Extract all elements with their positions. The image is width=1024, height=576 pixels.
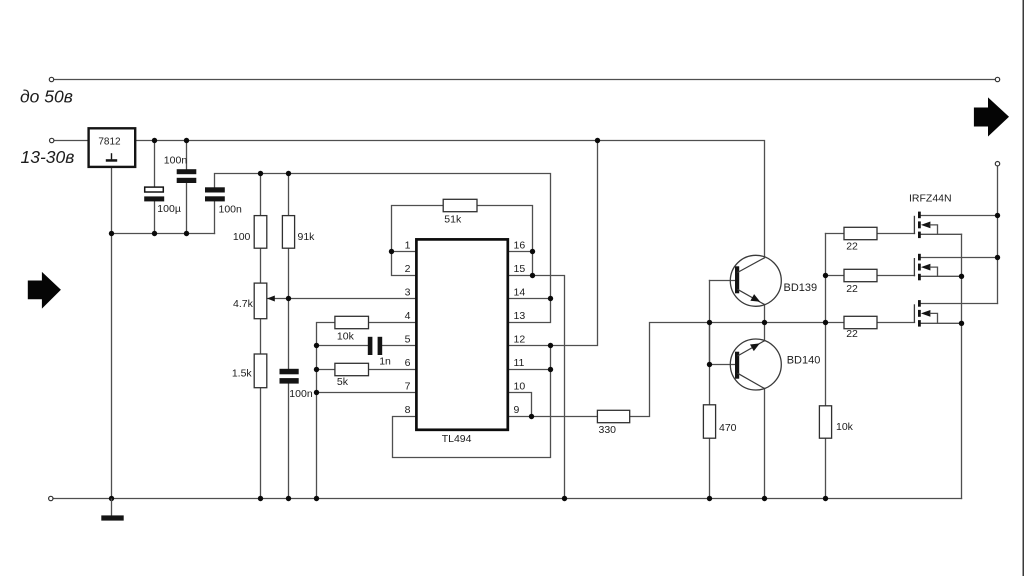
junction gate bus row3 xyxy=(823,320,828,325)
transistor M2 IRFZ44N gate bar xyxy=(913,258,915,276)
junction 100n C1 bottom xyxy=(184,231,189,236)
svg-text:22: 22 xyxy=(846,241,858,253)
terminal 13-30в xyxy=(50,138,54,142)
junction pin3 divider xyxy=(286,296,291,301)
resistor R12 22 xyxy=(844,269,877,281)
svg-text:3: 3 xyxy=(405,287,411,299)
wire 22b row to M2 gate xyxy=(826,275,915,277)
transistor Q1 base bar xyxy=(735,266,739,293)
svg-text:5: 5 xyxy=(405,334,411,346)
resistor R6 10k xyxy=(335,316,369,328)
svg-text:100n: 100n xyxy=(289,388,313,400)
junction ground rail x112 xyxy=(109,496,114,501)
transistor Q2 emitter arrow xyxy=(750,343,760,351)
ground symbol bottom rail xyxy=(111,499,113,516)
svg-text:6: 6 xyxy=(405,357,411,369)
svg-text:7812: 7812 xyxy=(98,136,121,147)
wire main ground vertical from 7812 xyxy=(111,167,113,499)
svg-text:5k: 5k xyxy=(337,376,349,388)
terminal до 50в left xyxy=(49,77,53,81)
wire pin2 stub and 51k left riser xyxy=(392,206,533,276)
wire pin9 through 330 to driver bases xyxy=(509,323,826,417)
svg-text:BD139: BD139 xyxy=(784,282,818,294)
junction 100u bottom xyxy=(152,231,157,236)
resistor R13 22 xyxy=(844,316,877,328)
wire BD140 collector to ground xyxy=(764,389,766,499)
transistor M2 channel dashes xyxy=(918,254,921,261)
junction driver bases xyxy=(707,320,712,325)
wire 100u cap top lead xyxy=(154,141,156,188)
wire pin5 to 1n left plate xyxy=(317,345,368,347)
transistor M3 channel dashes xyxy=(918,300,921,307)
junction BD140 base xyxy=(707,362,712,367)
junction pin12 riser on +12 rail xyxy=(595,138,600,143)
wire input 13-30в to 7812 xyxy=(54,140,88,142)
capacitor 1n C4 xyxy=(368,337,373,355)
resistor R2 91k xyxy=(282,216,294,249)
junction pin9 pin10 xyxy=(529,414,534,419)
svg-text:4: 4 xyxy=(405,310,411,322)
input flow arrow left xyxy=(28,272,61,309)
resistor R11 22 xyxy=(844,227,877,239)
wire RC bus vertical xyxy=(317,323,416,499)
wire 91k chain to 100n C3 top xyxy=(288,174,290,369)
transistor Q1 emitter arrow xyxy=(750,294,760,302)
junction emitters xyxy=(762,320,767,325)
wire pin3 to 4.7k wiper xyxy=(268,298,416,300)
transistor Q2 base bar xyxy=(735,352,739,379)
svg-text:BD140: BD140 xyxy=(787,354,821,366)
svg-text:1n: 1n xyxy=(379,356,391,368)
junction ground rail x565 xyxy=(562,496,567,501)
transistor M2 body arrow xyxy=(921,264,931,271)
transistor M1 IRFZ44N gate bar xyxy=(913,216,915,234)
wire local ground bus xyxy=(112,233,215,235)
wire divider chain R100/4.7k/1.5k xyxy=(260,174,262,499)
wire 100n C2 top lead to Vref rail and down to pin13 xyxy=(215,174,551,323)
wire base riser Q1 Q2 xyxy=(709,281,711,365)
wire pin6 5k row xyxy=(317,369,416,371)
junction 100u on +12 rail xyxy=(152,138,157,143)
transistor M1 channel dashes xyxy=(918,212,921,219)
svg-text:91k: 91k xyxy=(298,231,316,243)
svg-text:IRFZ44N: IRFZ44N xyxy=(909,193,952,205)
wire pin7 xyxy=(317,392,416,394)
svg-text:100n: 100n xyxy=(219,203,243,215)
junction ground rail x260 xyxy=(258,496,263,501)
ground symbol inside 7812 xyxy=(111,153,113,159)
svg-text:7: 7 xyxy=(405,381,411,393)
wire 22c row to M3 gate xyxy=(826,322,915,324)
transistor Q2 BD140 circle xyxy=(730,339,781,390)
transistor Q1 collector slant xyxy=(738,258,765,273)
svg-text:100: 100 xyxy=(233,231,251,243)
svg-text:2: 2 xyxy=(405,263,411,275)
svg-text:до 50в: до 50в xyxy=(20,87,73,107)
svg-text:10: 10 xyxy=(514,381,526,393)
svg-text:15: 15 xyxy=(514,263,526,275)
wire pin8 loop to pins 11-12 xyxy=(393,346,551,458)
svg-text:11: 11 xyxy=(514,357,525,369)
transistor Q1 BD139 circle xyxy=(730,255,781,306)
svg-text:51k: 51k xyxy=(444,214,462,226)
regulator U2 7812 xyxy=(89,128,136,167)
transistor Q2 collector slant xyxy=(738,373,765,388)
wire top rail до 50в xyxy=(54,79,996,81)
resistor R9 470 xyxy=(703,405,715,438)
wire source bus xyxy=(961,234,963,498)
wire 100n C1 bottom lead xyxy=(186,183,188,234)
wire 100u cap bottom lead xyxy=(154,202,156,234)
junction ground rail x710 xyxy=(707,496,712,501)
svg-text:12: 12 xyxy=(514,334,526,346)
svg-text:16: 16 xyxy=(514,240,526,252)
resistor R1 100 xyxy=(254,216,267,249)
junction M2 source bus xyxy=(959,274,964,279)
junction 5k branch xyxy=(314,367,319,372)
wire M1 source xyxy=(920,233,962,235)
svg-text:1: 1 xyxy=(405,240,411,252)
terminal output drain xyxy=(995,162,999,166)
junction R1 top on Vref rail xyxy=(258,171,263,176)
wire 7812 output +12V rail to BD139 collector xyxy=(135,141,764,258)
svg-text:10k: 10k xyxy=(836,421,854,433)
junction ground rail x317 xyxy=(314,496,319,501)
svg-text:4.7k: 4.7k xyxy=(233,298,254,310)
junction pin15 xyxy=(530,273,535,278)
svg-text:13-30в: 13-30в xyxy=(21,147,75,167)
wire M2 source xyxy=(920,275,962,277)
wire pin14 stub xyxy=(509,298,551,300)
svg-text:1.5k: 1.5k xyxy=(232,368,253,380)
resistor R7 5k xyxy=(335,363,369,375)
junction ground rail x826 xyxy=(823,496,828,501)
wire pin10 stub xyxy=(509,393,532,417)
svg-text:22: 22 xyxy=(846,283,858,295)
wire pin16 stub xyxy=(509,251,533,253)
wire BD139 base lead xyxy=(710,280,737,282)
output flow arrow right xyxy=(974,97,1009,136)
junction M2 drain bus xyxy=(995,255,1000,260)
svg-text:330: 330 xyxy=(599,424,617,436)
resistor R8 330 xyxy=(597,410,629,422)
junction pin11 xyxy=(548,367,553,372)
wire 1n right plate to pin5 xyxy=(382,345,415,347)
junction ground bus left xyxy=(109,231,114,236)
wire M3 source xyxy=(920,322,962,324)
wire bottom ground rail xyxy=(53,498,961,500)
wire 100n C3 bottom to ground rail xyxy=(288,384,290,499)
junction R2 top on Vref rail xyxy=(286,171,291,176)
wire drain output bus xyxy=(997,166,999,304)
svg-text:100µ: 100µ xyxy=(157,203,181,215)
junction ground rail x765 xyxy=(762,496,767,501)
svg-text:10k: 10k xyxy=(337,331,355,343)
resistor R5 51k xyxy=(443,199,477,211)
svg-text:100n: 100n xyxy=(164,155,188,167)
wire pin11 stub xyxy=(509,369,551,371)
wire M2 drain xyxy=(920,257,998,259)
transistor M3 IRFZ44N gate bar xyxy=(913,304,915,322)
transistor Q2 emitter slant xyxy=(738,341,765,356)
junction pin14 xyxy=(548,296,553,301)
junction gate bus row2 xyxy=(823,273,828,278)
svg-text:470: 470 xyxy=(719,422,737,434)
junction ground rail x289 xyxy=(286,496,291,501)
wire BD140 base lead xyxy=(710,364,737,366)
junction pin12 xyxy=(548,343,553,348)
wire 470 branch to ground xyxy=(709,323,711,499)
transistor Q1 emitter slant xyxy=(738,289,765,304)
junction pin16 xyxy=(530,249,535,254)
wire 100n C1 top lead xyxy=(186,141,188,170)
wire pin12 Vcc riser xyxy=(509,141,598,346)
terminal ground xyxy=(49,496,53,500)
junction pin7 branch xyxy=(314,390,319,395)
capacitor 100n C1 xyxy=(177,169,197,174)
svg-text:TL494: TL494 xyxy=(442,433,472,445)
wire pin1 stub xyxy=(392,251,416,253)
svg-text:22: 22 xyxy=(846,328,858,340)
wire gate drive bus xyxy=(825,234,827,499)
capacitor 100n C2 xyxy=(205,187,225,192)
junction pin1 xyxy=(389,249,394,254)
op-amp U1 TL494 body xyxy=(416,239,507,429)
capacitor 100u electrolytic xyxy=(145,187,164,192)
wire 100n C2 bottom lead xyxy=(214,201,216,233)
svg-text:9: 9 xyxy=(514,404,520,416)
resistor R4 1.5k xyxy=(254,354,267,388)
junction 100n C1 on +12 rail xyxy=(184,138,189,143)
svg-text:8: 8 xyxy=(405,404,411,416)
transistor M3 body arrow xyxy=(921,310,931,317)
wire emitters junction xyxy=(764,305,766,341)
capacitor 100n C3 xyxy=(280,369,299,375)
transistor M1 body arrow xyxy=(921,222,931,229)
junction 1n branch xyxy=(314,343,319,348)
resistor R3 4.7k trimmer xyxy=(254,283,267,319)
wire M3 drain xyxy=(920,303,998,305)
wiper arrow of 4.7k xyxy=(267,296,275,302)
wire pin15 to ground xyxy=(509,276,565,499)
image right edge border xyxy=(1023,0,1024,576)
junction M1 drain bus xyxy=(995,213,1000,218)
wire 22a row to M1 gate xyxy=(826,233,915,235)
svg-text:13: 13 xyxy=(514,310,526,322)
svg-text:14: 14 xyxy=(514,287,526,299)
terminal до 50в right xyxy=(995,77,999,81)
wire M1 drain xyxy=(920,215,998,217)
resistor R10 10k xyxy=(819,406,831,438)
junction M3 source bus xyxy=(959,321,964,326)
